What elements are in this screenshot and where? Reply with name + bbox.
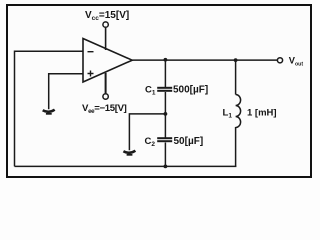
capacitor C1 <box>157 88 172 91</box>
wire: feedback from output bottom rail to inverting input <box>15 51 84 166</box>
wire: bottom rail <box>15 165 237 167</box>
terminal Vee <box>103 94 108 99</box>
node: junction mid wire <box>164 112 168 116</box>
wire: L branch upper segment <box>235 60 237 95</box>
ground (between C1 and C2) <box>123 151 135 155</box>
terminal Vout <box>277 58 282 63</box>
node: output junction at L branch <box>234 58 238 62</box>
svg-text:1 [mH]: 1 [mH] <box>247 108 277 119</box>
wire: L branch lower segment <box>235 127 237 166</box>
capacitor C2 <box>157 138 172 141</box>
svg-text:Vcc=15[V]: Vcc=15[V] <box>85 10 129 22</box>
inductor L1 <box>236 95 241 128</box>
terminal Vcc <box>103 22 108 27</box>
node: output junction at C branch <box>164 58 168 62</box>
wire: mid wire to ground <box>129 114 165 150</box>
wire: output rail <box>132 59 277 61</box>
wire: Vcc stem <box>105 28 107 50</box>
wire: C branch middle segment <box>164 92 166 138</box>
node: bottom junction at C branch <box>164 165 168 169</box>
wire: Vee stem <box>105 73 107 94</box>
wire: C branch upper segment <box>164 60 166 87</box>
svg-text:50[µF]: 50[µF] <box>174 136 204 147</box>
op-amp U1 <box>83 39 132 83</box>
border frame <box>7 5 311 177</box>
wire: non-inverting input to ground <box>49 74 83 109</box>
ground (non-inverting input) <box>43 110 55 114</box>
svg-text:500[µF]: 500[µF] <box>173 85 208 96</box>
wire: C branch lower segment <box>164 143 166 168</box>
